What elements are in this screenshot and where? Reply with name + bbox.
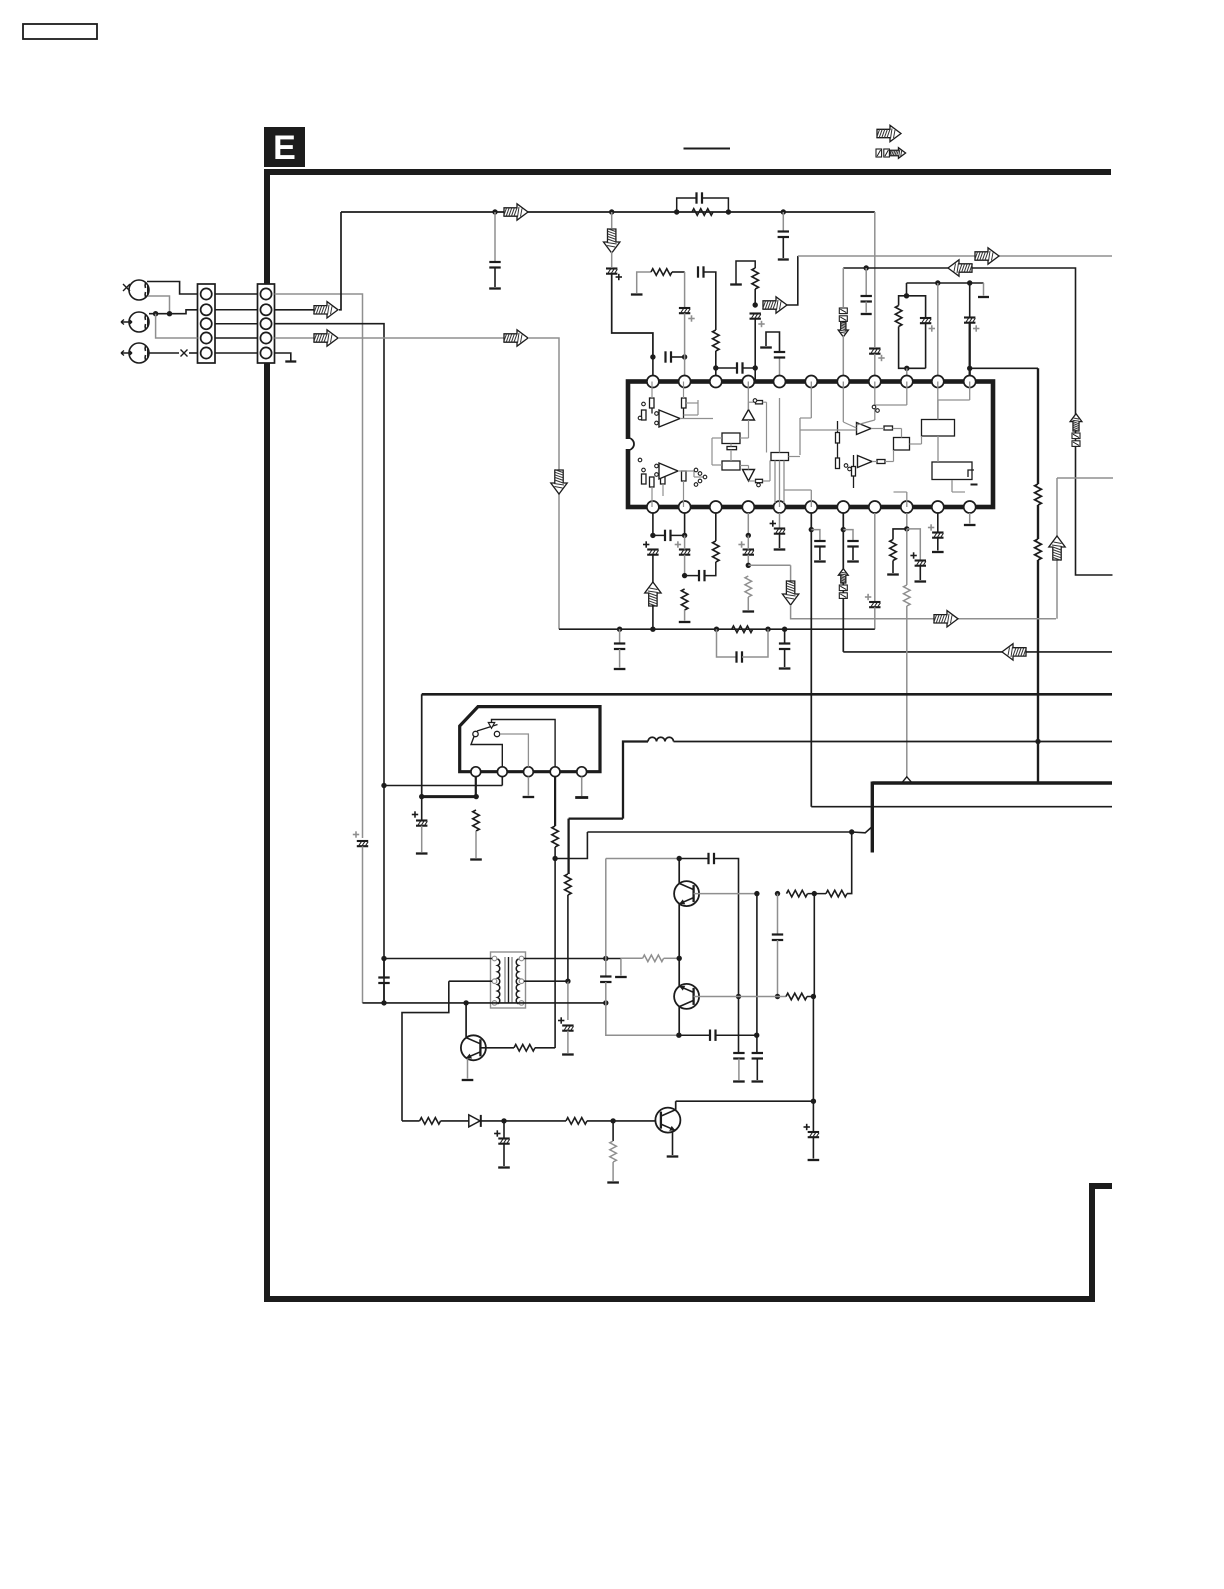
junction xyxy=(904,526,909,531)
transistor Q4 xyxy=(461,1035,486,1060)
wire xyxy=(782,237,784,258)
CN2 pin 2 xyxy=(260,304,271,315)
wire xyxy=(567,1031,569,1053)
wire stub pin9 xyxy=(906,368,908,375)
wire x1038 mid xyxy=(1037,505,1039,539)
wire jog to y832 xyxy=(555,832,587,859)
ground Q4 xyxy=(462,1079,474,1081)
arrow down x611 xyxy=(604,229,620,253)
electrolytic pin21 xyxy=(675,541,691,554)
wire xyxy=(621,957,643,959)
junction xyxy=(967,280,972,285)
SW1 pin 5 xyxy=(577,767,587,777)
junction xyxy=(674,209,679,214)
wire xyxy=(779,534,781,548)
ground x476 xyxy=(470,858,482,860)
wire x777 column xyxy=(777,894,779,935)
resistor x906 xyxy=(904,585,911,606)
junction xyxy=(565,979,570,984)
wire CN2 pin3 down x384 column xyxy=(275,324,385,1003)
transformer T1 xyxy=(491,952,526,1008)
wire xyxy=(652,555,654,583)
wire bold pin11 xyxy=(969,323,971,376)
U1 pin 2 top xyxy=(679,376,691,388)
ground x504 xyxy=(498,1166,510,1168)
CN2 pin 3 xyxy=(260,318,271,329)
wire xyxy=(679,1034,710,1036)
wire xyxy=(494,268,496,288)
ground pin18 xyxy=(774,548,786,550)
wire SW1 pin5 xyxy=(581,777,583,796)
wire U1 pin15 xyxy=(874,513,876,601)
electrolytic pin13 xyxy=(928,524,944,537)
wire x738 column xyxy=(714,859,739,997)
arrow on y256 xyxy=(975,248,999,264)
wire xyxy=(754,319,756,368)
wire power bus y694 xyxy=(422,693,1112,696)
arrow on y618 net xyxy=(934,611,958,627)
junction xyxy=(726,209,731,214)
CN2 pin 4 xyxy=(260,332,271,343)
wire U1 pin18 xyxy=(779,513,781,529)
resistor x893 xyxy=(890,540,897,561)
wire U1 pin19 xyxy=(747,513,749,535)
junction xyxy=(677,856,682,861)
wire to x1038 xyxy=(970,367,1038,369)
wire U1 pin13 xyxy=(937,513,939,532)
wire xyxy=(611,252,613,267)
junction xyxy=(904,293,909,298)
capacitor stub x495 xyxy=(489,262,500,268)
junction triangle to power bus xyxy=(902,777,913,783)
ground x568 xyxy=(562,1053,574,1055)
RCA jack J2 audio in L xyxy=(129,312,149,332)
terminal x784 xyxy=(779,667,791,669)
wire y256 net xyxy=(798,255,1112,257)
ground x920 xyxy=(915,580,927,582)
wire x684 column xyxy=(684,272,686,307)
resistor y272 xyxy=(651,269,672,276)
wire xyxy=(685,575,699,577)
wire y1101 net xyxy=(676,1100,814,1102)
wire CN2 pin1 down left column xyxy=(275,294,363,838)
wire SW1 pin3 xyxy=(527,777,529,796)
wire x814 column upper xyxy=(813,894,815,997)
CN2 pin 1 xyxy=(260,288,271,299)
CN1 pin 5 xyxy=(201,347,212,358)
connector CN2 xyxy=(258,284,275,363)
wire to IC pin2 xyxy=(684,313,686,375)
wire xyxy=(738,997,740,1054)
wire x1038 lower xyxy=(1037,560,1039,783)
wire switch to pin2 xyxy=(471,737,502,767)
wire xyxy=(671,356,685,358)
wire xyxy=(611,212,613,228)
arrow ref top 1 xyxy=(877,125,901,141)
junction xyxy=(167,311,172,316)
wire pin5 top xyxy=(779,358,781,376)
capacitor x853 xyxy=(847,541,858,547)
resistor diode row 2 xyxy=(566,1118,587,1125)
electrolytic diode row xyxy=(494,1130,510,1143)
junction xyxy=(501,1118,506,1123)
resistor x1038 lower xyxy=(1035,539,1042,560)
tuner module SW1 xyxy=(460,707,600,772)
T1 terminal xyxy=(492,979,497,984)
wire xyxy=(842,336,844,376)
arrow up x652 xyxy=(645,582,661,606)
wire bus stub x872 xyxy=(871,782,874,853)
wire xyxy=(743,367,756,369)
junction xyxy=(650,533,655,538)
X no-connect xyxy=(181,350,188,357)
U1 pin 10 top xyxy=(932,376,944,388)
wire Q1 emitter xyxy=(678,904,680,959)
capacitor x384 xyxy=(378,978,389,984)
wire xyxy=(672,271,685,273)
arrow 1 on y338 net xyxy=(314,330,338,346)
U1 pin 14 bottom xyxy=(901,501,913,513)
CN1 pin 1 xyxy=(201,288,212,299)
section label E xyxy=(264,127,305,167)
wire pin7 top xyxy=(842,268,844,307)
wire up to top net xyxy=(339,212,341,310)
wire y629 net xyxy=(559,628,875,630)
wire bold segment y796 xyxy=(422,795,477,798)
junction xyxy=(552,856,557,861)
CN1 pin 3 xyxy=(201,318,212,329)
junction xyxy=(841,527,846,532)
junction xyxy=(736,994,741,999)
junction xyxy=(754,1033,759,1038)
capacitor stub x783 xyxy=(778,232,789,238)
wire xyxy=(756,1059,758,1081)
resistor y629 xyxy=(732,626,753,633)
wire xyxy=(747,597,749,610)
wire CN1-CN2 pin 5 xyxy=(215,352,258,354)
junction xyxy=(775,994,780,999)
wire Q4 emitter xyxy=(467,1059,469,1079)
electrolytic x755 xyxy=(750,314,765,328)
wire y283 net xyxy=(907,282,984,284)
junction xyxy=(812,891,817,896)
ground CN2 xyxy=(285,360,296,362)
junction xyxy=(463,1000,468,1005)
ground x738 xyxy=(733,1080,745,1082)
capacitor x606 xyxy=(600,977,611,983)
capacitor pin22-21 xyxy=(665,530,671,541)
junction xyxy=(809,527,814,532)
wire x362 column lower xyxy=(362,846,364,1003)
wire xyxy=(684,535,686,549)
capacitor y858 xyxy=(709,853,715,864)
wire to IC edge xyxy=(754,368,756,380)
arrow on y212 net xyxy=(504,204,528,220)
resistor in y212 net xyxy=(692,209,713,216)
wire xyxy=(612,1121,614,1141)
RCA jack J1 video in xyxy=(129,280,149,300)
SW1 pin 2 xyxy=(497,767,507,777)
wire xyxy=(819,547,821,561)
junction xyxy=(492,209,497,214)
ground x495 xyxy=(489,287,501,289)
capacitor x619 xyxy=(614,644,625,650)
junction xyxy=(753,365,758,370)
arrow up x1057 xyxy=(1049,536,1065,560)
label 00 top xyxy=(876,149,889,157)
wire xyxy=(684,555,686,576)
junction xyxy=(603,956,608,961)
arrow right x755 xyxy=(763,297,787,313)
wire xyxy=(892,561,894,574)
U1 pin 22 bottom xyxy=(647,501,659,513)
arrow ref top 2 xyxy=(890,148,906,159)
wire T-branch xyxy=(620,959,622,976)
wire CN1-CN2 pin 3 xyxy=(215,323,258,325)
wire xyxy=(865,302,867,313)
wire xyxy=(383,983,385,1003)
arrow up x1076 xyxy=(1070,414,1082,432)
wire U1 pin20 xyxy=(715,513,717,541)
wire to pin8 xyxy=(874,354,876,376)
electrolytic x925 xyxy=(920,318,935,332)
wire CN2 pin5 to ground xyxy=(275,353,291,361)
U1 pin 9 top xyxy=(901,376,913,388)
wire xyxy=(852,547,854,561)
wire xyxy=(754,289,756,305)
junction xyxy=(811,994,816,999)
resistor x684 lower xyxy=(681,589,688,610)
wire xyxy=(716,367,737,369)
wire y806 net xyxy=(811,806,1112,808)
wire y741 net xyxy=(674,741,1113,743)
wire xyxy=(742,629,768,657)
SW1 pin 3 xyxy=(524,767,534,777)
ground SW1 pin5 heavy xyxy=(575,796,588,799)
U1 pin 17 bottom xyxy=(805,501,817,513)
wire power bus y783 xyxy=(872,781,1112,784)
U1 pin 20 bottom xyxy=(710,501,722,513)
capacitor y272 xyxy=(698,266,704,277)
wire CN1-CN2 pin 1 xyxy=(215,293,258,295)
junction xyxy=(419,794,424,799)
arrow down x790 xyxy=(782,581,798,605)
wire xyxy=(475,831,477,858)
resistor x568 xyxy=(565,874,572,895)
junction xyxy=(754,891,759,896)
wire U1 pin17 long xyxy=(810,513,812,807)
wire cap branch xyxy=(843,530,853,541)
wire x1038 bus upper xyxy=(1037,368,1039,484)
junction xyxy=(864,265,869,270)
wire elec branch xyxy=(907,529,921,560)
wire Q1 collector xyxy=(678,859,680,884)
U1 pin 21 bottom xyxy=(679,501,691,513)
T1 terminal xyxy=(492,956,497,961)
resistor x716 xyxy=(713,330,720,351)
wire xyxy=(481,1120,504,1122)
label 00 pin16 column xyxy=(839,585,847,598)
arrow up pin16 column xyxy=(838,569,848,584)
ground x736 xyxy=(730,283,742,285)
wire J3 xyxy=(149,352,179,354)
U1 pin 4 top xyxy=(742,376,754,388)
wire x606 column xyxy=(605,859,607,977)
junction xyxy=(714,627,719,632)
wire xyxy=(784,649,786,667)
junction xyxy=(849,829,854,834)
U1 pin 8 top xyxy=(869,376,881,388)
wire Q2 top xyxy=(678,958,680,986)
ground x421 xyxy=(416,852,428,854)
capacitor x757 xyxy=(752,1053,763,1059)
T1 terminal xyxy=(519,979,524,984)
wire x757 column xyxy=(756,894,758,1036)
wire R loop xyxy=(899,296,907,306)
wire to CN1 pin4 xyxy=(156,314,198,338)
wire xyxy=(777,940,779,997)
SW1 pin 4 xyxy=(550,767,560,777)
electrolytic pin19 xyxy=(738,541,754,554)
electrolytic x611 xyxy=(606,269,622,281)
resistor Q2 base xyxy=(786,993,807,1000)
junction xyxy=(610,1118,615,1123)
resistor x755 xyxy=(752,268,759,289)
junction xyxy=(381,783,386,788)
resistor x1038 upper xyxy=(1035,484,1042,505)
junction xyxy=(781,209,786,214)
junction xyxy=(753,302,758,307)
junction xyxy=(904,366,909,371)
label 00 x1076 xyxy=(1072,433,1080,446)
junction xyxy=(811,1099,816,1104)
IC U1 notch xyxy=(628,438,634,450)
wire x814 column lower xyxy=(812,997,814,1102)
wire xyxy=(747,555,749,566)
wire xyxy=(503,1121,505,1139)
wire diagonal to bus stub xyxy=(852,827,873,833)
wire x875 column xyxy=(874,212,876,347)
wire y268 net xyxy=(843,268,1112,575)
ground x613 xyxy=(607,1181,619,1183)
arrow marker J2 xyxy=(121,320,132,325)
electrolytic x969 xyxy=(964,318,979,332)
terminal bar x783 xyxy=(778,258,789,260)
wire xyxy=(807,996,813,998)
wire xyxy=(652,605,654,629)
wire RC loop xyxy=(702,198,728,212)
junction xyxy=(676,1033,681,1038)
junction xyxy=(746,533,751,538)
wire x559 down to y629 net xyxy=(528,338,559,629)
U1 pin 12 bottom xyxy=(964,501,976,513)
electrolytic x684 xyxy=(679,308,695,322)
wire R loop bottom xyxy=(899,327,926,369)
wire R to ground xyxy=(637,272,651,293)
wire y478 net xyxy=(1057,477,1113,479)
wire xyxy=(739,996,787,998)
wire switch to pin4 xyxy=(492,720,556,767)
capacitor y1035 xyxy=(710,1030,716,1041)
divider line xyxy=(684,148,731,150)
terminal x866 xyxy=(861,313,872,315)
arrow left y268 xyxy=(948,260,972,276)
connector CN1 xyxy=(198,284,216,363)
wire xyxy=(653,534,665,536)
wire y858 net xyxy=(606,858,679,860)
wire cap branch xyxy=(811,530,820,541)
electrolytic pin18 xyxy=(770,520,786,533)
wire CN2 pin2 xyxy=(275,309,317,311)
wire xyxy=(671,534,685,536)
wire xyxy=(925,323,927,368)
T1 terminal xyxy=(519,1001,524,1006)
ground x766 xyxy=(760,346,772,348)
capacitor x819 xyxy=(814,541,825,547)
resistor pin20 bottom xyxy=(713,541,720,562)
U1 pin 16 bottom xyxy=(837,501,849,513)
U1 pin 3 top xyxy=(710,376,722,388)
wire X to CN1 pin5 xyxy=(189,352,198,354)
ground y272 xyxy=(631,293,643,295)
wire xyxy=(812,1137,814,1158)
capacitor x777 xyxy=(772,935,783,941)
wire U1 pin22 xyxy=(652,513,654,535)
wire xyxy=(441,1120,469,1122)
U1 pin 19 bottom xyxy=(742,501,754,513)
wire R branch xyxy=(893,529,907,540)
ground x748 xyxy=(743,610,755,612)
junction xyxy=(782,627,787,632)
electrolytic x813 xyxy=(804,1124,820,1137)
wire cap stub xyxy=(494,212,496,262)
wire to x555 xyxy=(535,1047,555,1049)
IC U1 notch mask xyxy=(626,439,631,449)
wire SW1 pin4 bold xyxy=(554,777,556,826)
wire top net y212 xyxy=(341,211,875,213)
U1 pin 18 bottom xyxy=(774,501,786,513)
wire pin15 lower xyxy=(874,607,876,629)
capacitor at x684 to R xyxy=(699,570,705,581)
U1 pin 6 top xyxy=(805,376,817,388)
electrolytic x568 xyxy=(558,1017,574,1030)
wire y618 net xyxy=(791,605,1056,619)
electrolytic pin15 xyxy=(865,594,881,607)
junction xyxy=(603,1000,608,1005)
junction xyxy=(1035,739,1040,744)
U1 pin 13 bottom xyxy=(932,501,944,513)
wire CN1-CN2 pin 4 xyxy=(215,337,258,339)
wire xyxy=(619,649,621,668)
electrolytic pin22 xyxy=(643,541,659,554)
capacitor pin5 top xyxy=(774,352,785,358)
T1 terminal xyxy=(519,956,524,961)
wire Q1 base net xyxy=(694,893,757,895)
ground x684 xyxy=(679,621,691,623)
wire Q2 bottom xyxy=(678,1007,680,1036)
junction xyxy=(153,311,158,316)
wire xyxy=(906,283,908,296)
ground x983 xyxy=(978,296,989,298)
wire y1002 net xyxy=(363,1002,606,1004)
diode D1 xyxy=(469,1115,481,1127)
wire U1 pin14 xyxy=(906,513,908,529)
wire xyxy=(937,538,939,551)
capacitor x784 xyxy=(779,644,790,650)
resistor y958 xyxy=(643,955,664,962)
wire RC loop y629 xyxy=(717,629,737,657)
wire SW1 pin1 bold xyxy=(475,777,477,797)
